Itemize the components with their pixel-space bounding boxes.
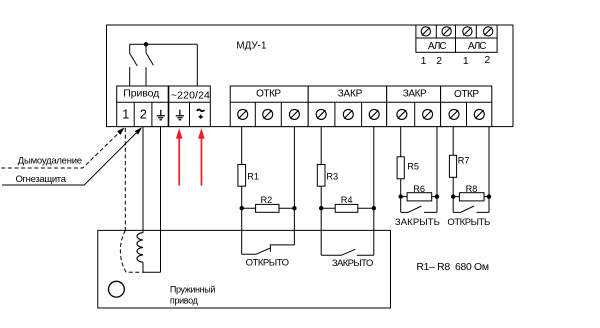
svg-text:Огнезащита: Огнезащита	[16, 174, 67, 185]
svg-text:2: 2	[140, 108, 147, 122]
svg-text:~220/24: ~220/24	[171, 89, 210, 101]
svg-text:R2: R2	[261, 195, 273, 205]
svg-text:АЛС: АЛС	[468, 41, 487, 52]
svg-text:ЗАКРЫТО: ЗАКРЫТО	[332, 258, 374, 269]
svg-text:ЗАКР: ЗАКР	[403, 89, 427, 100]
svg-text:R3: R3	[326, 172, 338, 182]
svg-text:привод: привод	[170, 296, 199, 306]
svg-text:ОТКР: ОТКР	[256, 89, 281, 100]
svg-text:МДУ-1: МДУ-1	[236, 41, 266, 52]
svg-text:R5: R5	[407, 162, 419, 172]
svg-text:ЗАКРЫТЬ: ЗАКРЫТЬ	[395, 217, 440, 228]
svg-text:R1– R8 680 Ом: R1– R8 680 Ом	[416, 262, 489, 273]
svg-text:2: 2	[436, 55, 442, 67]
svg-text:R6: R6	[413, 184, 425, 194]
svg-text:1: 1	[421, 55, 427, 67]
svg-text:ЗАКР: ЗАКР	[338, 89, 363, 100]
svg-text:ОТКР: ОТКР	[454, 89, 479, 100]
svg-text:R1: R1	[247, 172, 259, 182]
svg-text:2: 2	[484, 54, 490, 66]
svg-text:1: 1	[122, 108, 129, 122]
svg-text:Пружинный: Пружинный	[170, 284, 216, 294]
svg-text:ОТКРЫТЬ: ОТКРЫТЬ	[447, 217, 490, 228]
svg-text:ОТКРЫТО: ОТКРЫТО	[246, 257, 289, 268]
svg-text:R4: R4	[341, 195, 353, 205]
svg-text:R8: R8	[466, 184, 478, 194]
svg-text:1: 1	[463, 55, 469, 67]
svg-text:Дымоудаление: Дымоудаление	[18, 155, 82, 166]
svg-text:Привод: Привод	[123, 88, 159, 100]
svg-text:АЛС: АЛС	[428, 41, 447, 52]
svg-text:R7: R7	[458, 155, 470, 165]
